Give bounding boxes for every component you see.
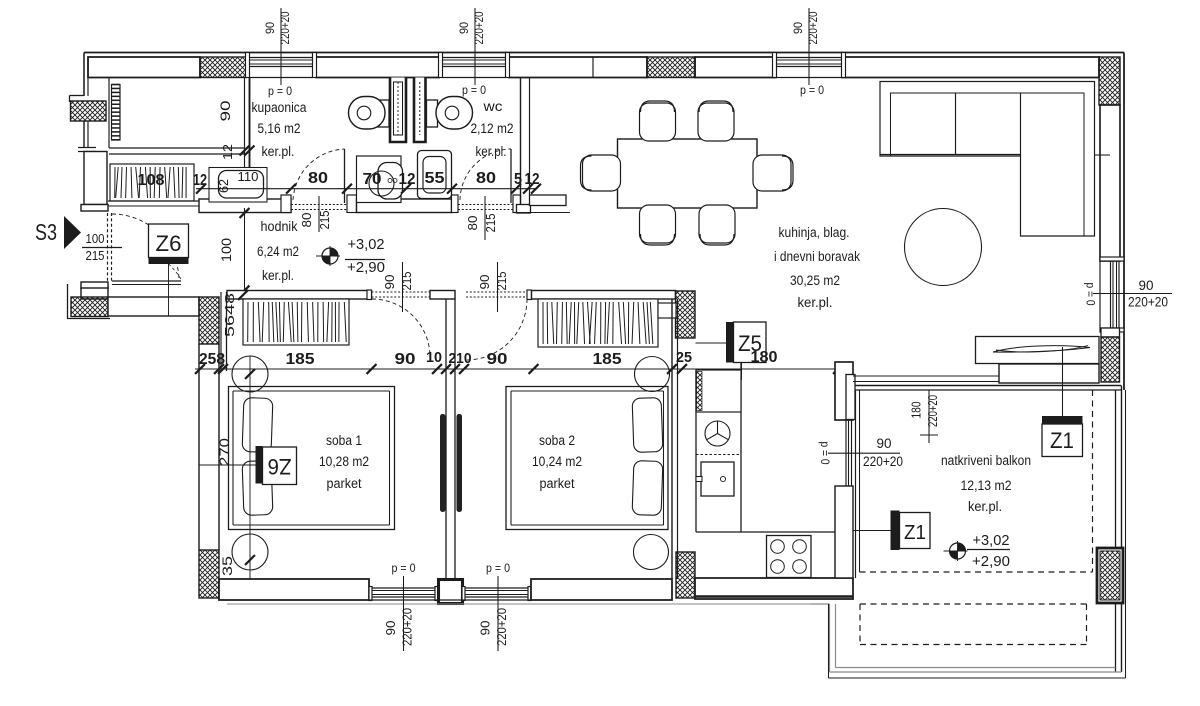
washbasin [357, 156, 403, 203]
svg-text:185: 185 [286, 351, 315, 368]
svg-text:80: 80 [300, 212, 314, 227]
dim window w1 90/220+20 [265, 8, 292, 85]
svg-text:p = 0: p = 0 [268, 84, 292, 98]
soba2 door threshold [466, 290, 532, 300]
sofa L-shape [880, 82, 1095, 237]
chair bottom2 [699, 205, 735, 245]
balcony roof dashed L [860, 390, 1093, 572]
entry door swing arc [112, 214, 181, 285]
dining table [618, 139, 758, 208]
dim window w3 90/220+20 [793, 8, 820, 85]
soba2 bed [506, 387, 668, 530]
Z6 legend soba1 [199, 446, 297, 485]
hatched wall pier top-left of bathroom [200, 57, 246, 78]
west wall below pier [78, 121, 96, 152]
svg-text:2,12 m2: 2,12 m2 [471, 121, 514, 136]
svg-text:220+20: 220+20 [926, 395, 940, 427]
dim 108 [138, 172, 165, 189]
balcony slab left [810, 604, 836, 672]
svg-text:ker.pl.: ker.pl. [476, 144, 507, 159]
dim window p=0 90/220+20 x403.5 [383, 561, 416, 651]
svg-text:90: 90 [1139, 278, 1154, 293]
svg-text:+2,90: +2,90 [972, 554, 1010, 570]
svg-text:215: 215 [495, 271, 509, 290]
dim 12 closet-wall [220, 144, 235, 160]
svg-text:180: 180 [751, 349, 778, 366]
hatched pier at soba1 NW corner [199, 297, 219, 344]
west wall chunk beside entry [81, 152, 108, 212]
svg-text:S3: S3 [35, 219, 57, 245]
balcony glass door [846, 420, 852, 486]
svg-text:25: 25 [676, 349, 692, 366]
svg-text:6,24 m2: 6,24 m2 [257, 244, 299, 259]
window W3 (living) [773, 53, 846, 78]
svg-text:soba 1: soba 1 [326, 433, 362, 448]
svg-text:parket: parket [327, 476, 362, 491]
balcony top wall [855, 386, 1121, 605]
chair right [753, 155, 793, 191]
svg-text:ker.pl.: ker.pl. [968, 499, 1002, 514]
svg-text:110: 110 [238, 169, 259, 184]
wardrobe 108 in closet [110, 164, 194, 201]
Z1 legend top [1042, 347, 1083, 457]
pocket door leaf soba2 [457, 414, 463, 512]
hatched wall pier top-middle [647, 57, 695, 78]
south wall inner line under windows [369, 599, 531, 601]
soba1 nightstand top [232, 356, 268, 392]
dim 270 soba1 [217, 438, 232, 466]
dim 90/215 soba1 door [383, 262, 414, 312]
soba1 wardrobe [243, 299, 349, 345]
plumbing shaft right [414, 78, 426, 143]
elevation marker hodnik +3,02/+2,90 [316, 237, 385, 276]
svg-text:Z1: Z1 [1050, 428, 1074, 453]
label p=0 window1 [268, 84, 292, 98]
svg-text:55: 55 [425, 170, 445, 187]
soba1 door arc [372, 299, 430, 357]
plumbing shaft left [390, 78, 406, 143]
S3 section marker [35, 216, 122, 263]
kitchen oven [696, 462, 734, 496]
balcony east wall [1116, 386, 1122, 673]
kupaonica door leaf+arc [293, 149, 345, 203]
svg-text:5,16 m2: 5,16 m2 [258, 121, 301, 136]
soba1 west wall upper jog [218, 290, 248, 374]
svg-text:258: 258 [199, 351, 225, 368]
svg-text:215: 215 [484, 213, 498, 232]
kitchen counter left [696, 362, 741, 532]
stove 4 burners [767, 536, 812, 578]
chair top2 [698, 101, 734, 141]
svg-text:185: 185 [593, 351, 622, 368]
soba2 wardrobe [538, 299, 676, 347]
svg-text:90: 90 [487, 351, 508, 368]
toilet kupaonica [349, 97, 390, 130]
kupaonica door threshold [281, 195, 357, 213]
svg-text:+3,02: +3,02 [973, 533, 1010, 549]
entry door opening (dashed) [108, 213, 112, 281]
wall post between doors [430, 291, 455, 300]
hodnik dimension line [196, 184, 541, 194]
balcony door wall lower [835, 486, 853, 578]
soba2/kitchen wall [672, 299, 678, 579]
east sill piece [1101, 328, 1120, 337]
svg-text:i dnevni boravak: i dnevni boravak [774, 249, 860, 264]
balcony slab bottom [830, 668, 1122, 673]
svg-text:10,24 m2: 10,24 m2 [532, 454, 582, 469]
soba2 nightstand bottom [634, 535, 669, 570]
Z1 legend left [853, 511, 930, 551]
dim 90 closet [217, 100, 254, 155]
svg-text:90: 90 [265, 22, 277, 34]
dim 90 soba2 door [487, 351, 508, 368]
Z5 legend [696, 322, 767, 380]
dim 185 soba1 [286, 351, 315, 368]
wall inner line under windows [250, 77, 842, 79]
svg-text:p = 0: p = 0 [392, 561, 416, 575]
hatched pier soba2 SE [676, 552, 695, 598]
svg-text:220+20: 220+20 [806, 11, 820, 44]
dim 80 kupaonica door [308, 170, 328, 187]
svg-text:90: 90 [383, 621, 398, 636]
kupaonica labels [252, 100, 307, 159]
svg-text:100: 100 [86, 232, 105, 246]
sill line south [227, 603, 829, 605]
hatched pier soba1 SW [199, 550, 219, 598]
window W5 soba1 [369, 587, 438, 601]
wc right wall [517, 78, 531, 214]
TV cabinet [976, 337, 1100, 364]
svg-text:wc: wc [482, 99, 502, 114]
balcony door wall [835, 362, 855, 420]
outer top wall line [84, 53, 1124, 391]
elevation marker balcony [944, 533, 1011, 570]
svg-text:215: 215 [86, 249, 105, 263]
svg-text:90: 90 [383, 274, 397, 289]
dim 90/215 soba2 door [478, 262, 509, 312]
partition soba1|soba2 [446, 299, 455, 579]
hatched pier west upper [71, 101, 107, 121]
soba2 labels [532, 433, 582, 491]
soba1 west wall [199, 344, 219, 550]
hodnik labels [257, 219, 299, 283]
wc door leaf+arc [460, 149, 511, 203]
svg-text:220+20: 220+20 [278, 11, 292, 44]
svg-text:90: 90 [793, 22, 805, 34]
svg-text:p = 0: p = 0 [800, 83, 824, 97]
kitchen sink 3-spoke [696, 421, 741, 455]
washing machine 55 [418, 151, 452, 199]
south wall soba2 [531, 579, 672, 600]
radiator [112, 85, 121, 141]
dim 55 machine [425, 170, 445, 187]
top wall segments [88, 57, 1099, 78]
svg-text:ker.pl.: ker.pl. [798, 295, 833, 310]
dim 12 shaft [399, 171, 416, 188]
dim 12 (closet wall) [193, 172, 207, 189]
svg-text:90: 90 [217, 100, 233, 121]
soba1 labels [319, 433, 369, 491]
toilet wc [427, 97, 473, 130]
west wall upper [70, 53, 89, 103]
svg-text:ker.pl.: ker.pl. [262, 268, 294, 283]
svg-text:parket: parket [540, 476, 575, 491]
pocket door leaf soba1 [440, 414, 446, 512]
soba1 door threshold [367, 290, 430, 300]
soba1 nightstand bottom [232, 534, 268, 570]
dim window w2 90/220+20 [459, 8, 486, 85]
south wall kitchen [695, 578, 853, 599]
dim 185 soba2 [593, 351, 622, 368]
svg-text:10: 10 [426, 350, 442, 366]
svg-text:80: 80 [308, 170, 328, 187]
svg-text:215: 215 [400, 271, 414, 290]
window W1 (kupaonica) [246, 53, 317, 78]
svg-text:215: 215 [318, 210, 332, 229]
dim window p=0 90/220+20 x498 [478, 561, 511, 651]
svg-text:+2,90: +2,90 [347, 260, 385, 276]
hatched corner pier top-right [1099, 57, 1120, 105]
dim 90 soba1 door [395, 351, 416, 368]
svg-text:10,28 m2: 10,28 m2 [319, 454, 369, 469]
chair left [581, 155, 621, 191]
svg-text:90: 90 [395, 351, 416, 368]
wall stub to living [517, 195, 570, 213]
east wall band [1100, 105, 1120, 261]
dim 25 [676, 349, 692, 366]
dim 180/220+20 balcony [910, 390, 941, 443]
balcony labels [941, 453, 1031, 514]
dim east window 90/220+20 [1084, 278, 1173, 310]
south wall soba1 [219, 579, 369, 600]
wc labels [471, 99, 514, 159]
svg-text:220+20: 220+20 [494, 608, 509, 646]
chair bottom1 [640, 205, 676, 245]
dim 180 kitchen [751, 349, 778, 366]
window W2 (wc) [439, 53, 510, 78]
svg-text:180: 180 [910, 401, 924, 418]
dim 70 [363, 171, 382, 188]
dim 80/215 wc door [466, 196, 498, 240]
balcony outer offset line [829, 390, 1126, 678]
east window W4 [1100, 257, 1124, 332]
svg-text:Z1: Z1 [904, 522, 926, 544]
soba2 nightstand top [635, 357, 670, 392]
label p=0 window3 [800, 83, 824, 97]
dim balcony door 90/220+20 [818, 436, 903, 469]
window W6 soba2 [462, 587, 531, 601]
svg-text:Z6: Z6 [268, 454, 292, 479]
svg-text:35: 35 [220, 556, 235, 576]
svg-text:kupaonica: kupaonica [252, 100, 307, 115]
bathroom south wall west part [199, 199, 291, 213]
svg-text:p = 0: p = 0 [462, 83, 486, 97]
dim 100 hodnik width [219, 208, 249, 295]
dim 80/215 kupaonica door [300, 196, 332, 232]
dim 80 wc door [476, 170, 496, 187]
svg-text:5648: 5648 [222, 293, 237, 337]
svg-text:hodnik: hodnik [261, 219, 298, 234]
dim 10 [426, 350, 442, 366]
dim 210 [449, 351, 472, 367]
soba2 door arc [466, 299, 527, 360]
closet interior walls [109, 78, 250, 205]
west wall chunk below entry [81, 282, 108, 299]
label p=0 window2 [462, 83, 486, 97]
center pillar south [439, 580, 463, 604]
Z6 legend hodnik [149, 224, 189, 316]
svg-text:Z6: Z6 [156, 231, 182, 256]
svg-text:90: 90 [877, 436, 892, 451]
svg-text:220+20: 220+20 [1128, 295, 1168, 310]
closet bottom wall line [108, 201, 199, 206]
svg-text:62: 62 [216, 179, 231, 193]
svg-text:30,25 m2: 30,25 m2 [790, 273, 840, 288]
soba1 bed [229, 387, 395, 530]
svg-text:12: 12 [525, 171, 540, 188]
svg-text:220+20: 220+20 [400, 608, 415, 646]
outer corner lines entry [68, 284, 111, 319]
svg-text:12: 12 [193, 172, 207, 189]
svg-text:+3,02: +3,02 [348, 237, 385, 253]
hatched pier west lower [71, 297, 108, 317]
svg-text:108: 108 [138, 172, 165, 189]
hatched pier balcony east [1097, 548, 1123, 603]
wall hodnik/soba1 [227, 291, 372, 300]
svg-text:natkriveni balkon: natkriveni balkon [941, 453, 1031, 468]
east wall inner line at window [1099, 261, 1101, 328]
svg-text:12,13 m2: 12,13 m2 [961, 478, 1012, 493]
hatched pier soba2/kitchen top [676, 291, 696, 338]
svg-text:80: 80 [476, 170, 496, 187]
svg-text:80: 80 [466, 215, 480, 230]
svg-text:12: 12 [399, 171, 416, 188]
chair top1 [640, 101, 676, 141]
svg-text:100: 100 [219, 238, 234, 262]
svg-text:5: 5 [514, 171, 522, 188]
wall hodnik/soba2 to kitchen [532, 291, 676, 300]
hatched pier east (below window) [1101, 337, 1120, 382]
svg-text:ker.pl.: ker.pl. [262, 144, 295, 159]
round rug [905, 209, 982, 286]
dim 5648 vertical [222, 293, 237, 337]
svg-text:kuhinja, blag.: kuhinja, blag. [779, 225, 850, 240]
soba1 ref line + ticks [214, 356, 255, 600]
main dim line sobas [195, 364, 845, 374]
dim 258 [199, 351, 225, 368]
svg-text:12: 12 [220, 144, 235, 160]
vanity / tub 110x62 [209, 168, 267, 203]
svg-text:70: 70 [363, 171, 382, 188]
svg-text:210: 210 [449, 351, 472, 367]
wc door threshold [452, 195, 521, 213]
svg-text:90: 90 [459, 22, 471, 34]
wall band below TV [999, 364, 1099, 383]
svg-text:90: 90 [478, 621, 493, 636]
sofa front line to wall [1095, 154, 1111, 156]
svg-text:220+20: 220+20 [472, 11, 486, 44]
kitchen counter bottom [696, 532, 837, 578]
svg-text:220+20: 220+20 [863, 454, 903, 469]
svg-text:90: 90 [478, 274, 492, 289]
dim 35 soba1 [220, 556, 235, 576]
sill lines at balcony window [853, 376, 999, 382]
balcony lower dashed rect [860, 604, 1087, 645]
balcony west edge [856, 390, 860, 578]
dim 5 12 [514, 171, 540, 188]
kuhinja labels [774, 225, 860, 310]
svg-text:p = 0: p = 0 [486, 561, 510, 575]
svg-text:soba 2: soba 2 [539, 433, 575, 448]
svg-text:270: 270 [217, 438, 232, 466]
entry south wall [108, 297, 199, 316]
wall chunk between doors [357, 199, 452, 213]
